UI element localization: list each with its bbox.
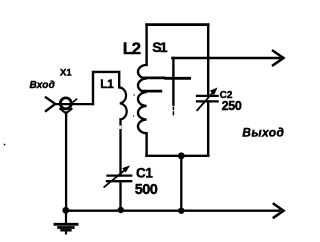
- switch S1 stem specks: [172, 107, 174, 114]
- wire tank circuit right edge lower: [207, 101, 209, 155]
- wire tank circuit top edge: [147, 23, 209, 26]
- wire X1 down to ground rail: [65, 113, 67, 211]
- capacitor C2 plates: [197, 96, 218, 102]
- connector X1 tick mark: [73, 99, 76, 102]
- wire tank circuit bottom edge: [146, 155, 208, 157]
- capacitor C1 arrow: [104, 170, 125, 187]
- svg-text:500: 500: [135, 182, 158, 198]
- wire tank circuit right edge upper: [207, 25, 209, 96]
- inductor L1 loop wire: [93, 72, 119, 104]
- node junction at tank bottom: [178, 152, 185, 159]
- wire ground rail output bottom: [66, 209, 280, 211]
- capacitor C2 arrow: [197, 93, 213, 111]
- node junction at C1 ground: [118, 207, 124, 213]
- switch S1 tap bar upper: [144, 77, 164, 80]
- arrow output top: [273, 51, 284, 65]
- stray speck near L1: [133, 94, 135, 96]
- wire through connector X1: [55, 103, 93, 105]
- scan nick on L1 wire: [119, 126, 121, 130]
- ground symbol: [65, 212, 67, 223]
- stray speck: [4, 144, 6, 146]
- node junction at tank ground: [178, 208, 184, 214]
- svg-text:250: 250: [222, 99, 242, 113]
- switch S1 tap bar lower: [144, 90, 161, 93]
- wire tank bottom to ground rail: [180, 156, 182, 211]
- svg-text:Вход: Вход: [30, 80, 56, 91]
- inductor L2 coil: [138, 25, 147, 156]
- svg-text:X1: X1: [60, 68, 72, 79]
- stray speck near L1 lower: [133, 115, 134, 116]
- connector X1 input arrow: [46, 98, 55, 111]
- wire C1 to ground rail: [119, 181, 121, 210]
- capacitor C1 plates: [107, 176, 131, 182]
- svg-text:S1: S1: [152, 39, 168, 55]
- svg-text:C1: C1: [136, 166, 153, 181]
- inductor L1 coil: [119, 87, 127, 119]
- switch S1 stem: [172, 58, 174, 105]
- switch S1 wiper bar: [166, 77, 190, 80]
- svg-text:Выход: Выход: [242, 126, 284, 140]
- wire L1 to C1: [119, 119, 121, 175]
- svg-text:L2: L2: [123, 39, 141, 58]
- connector X1 circle: [60, 98, 71, 109]
- node junction at X1 ground: [62, 207, 69, 214]
- wire output top: [172, 57, 279, 59]
- svg-text:L1: L1: [100, 77, 114, 91]
- arrow output bottom: [274, 204, 284, 218]
- connector X1 lower legs: [60, 109, 71, 114]
